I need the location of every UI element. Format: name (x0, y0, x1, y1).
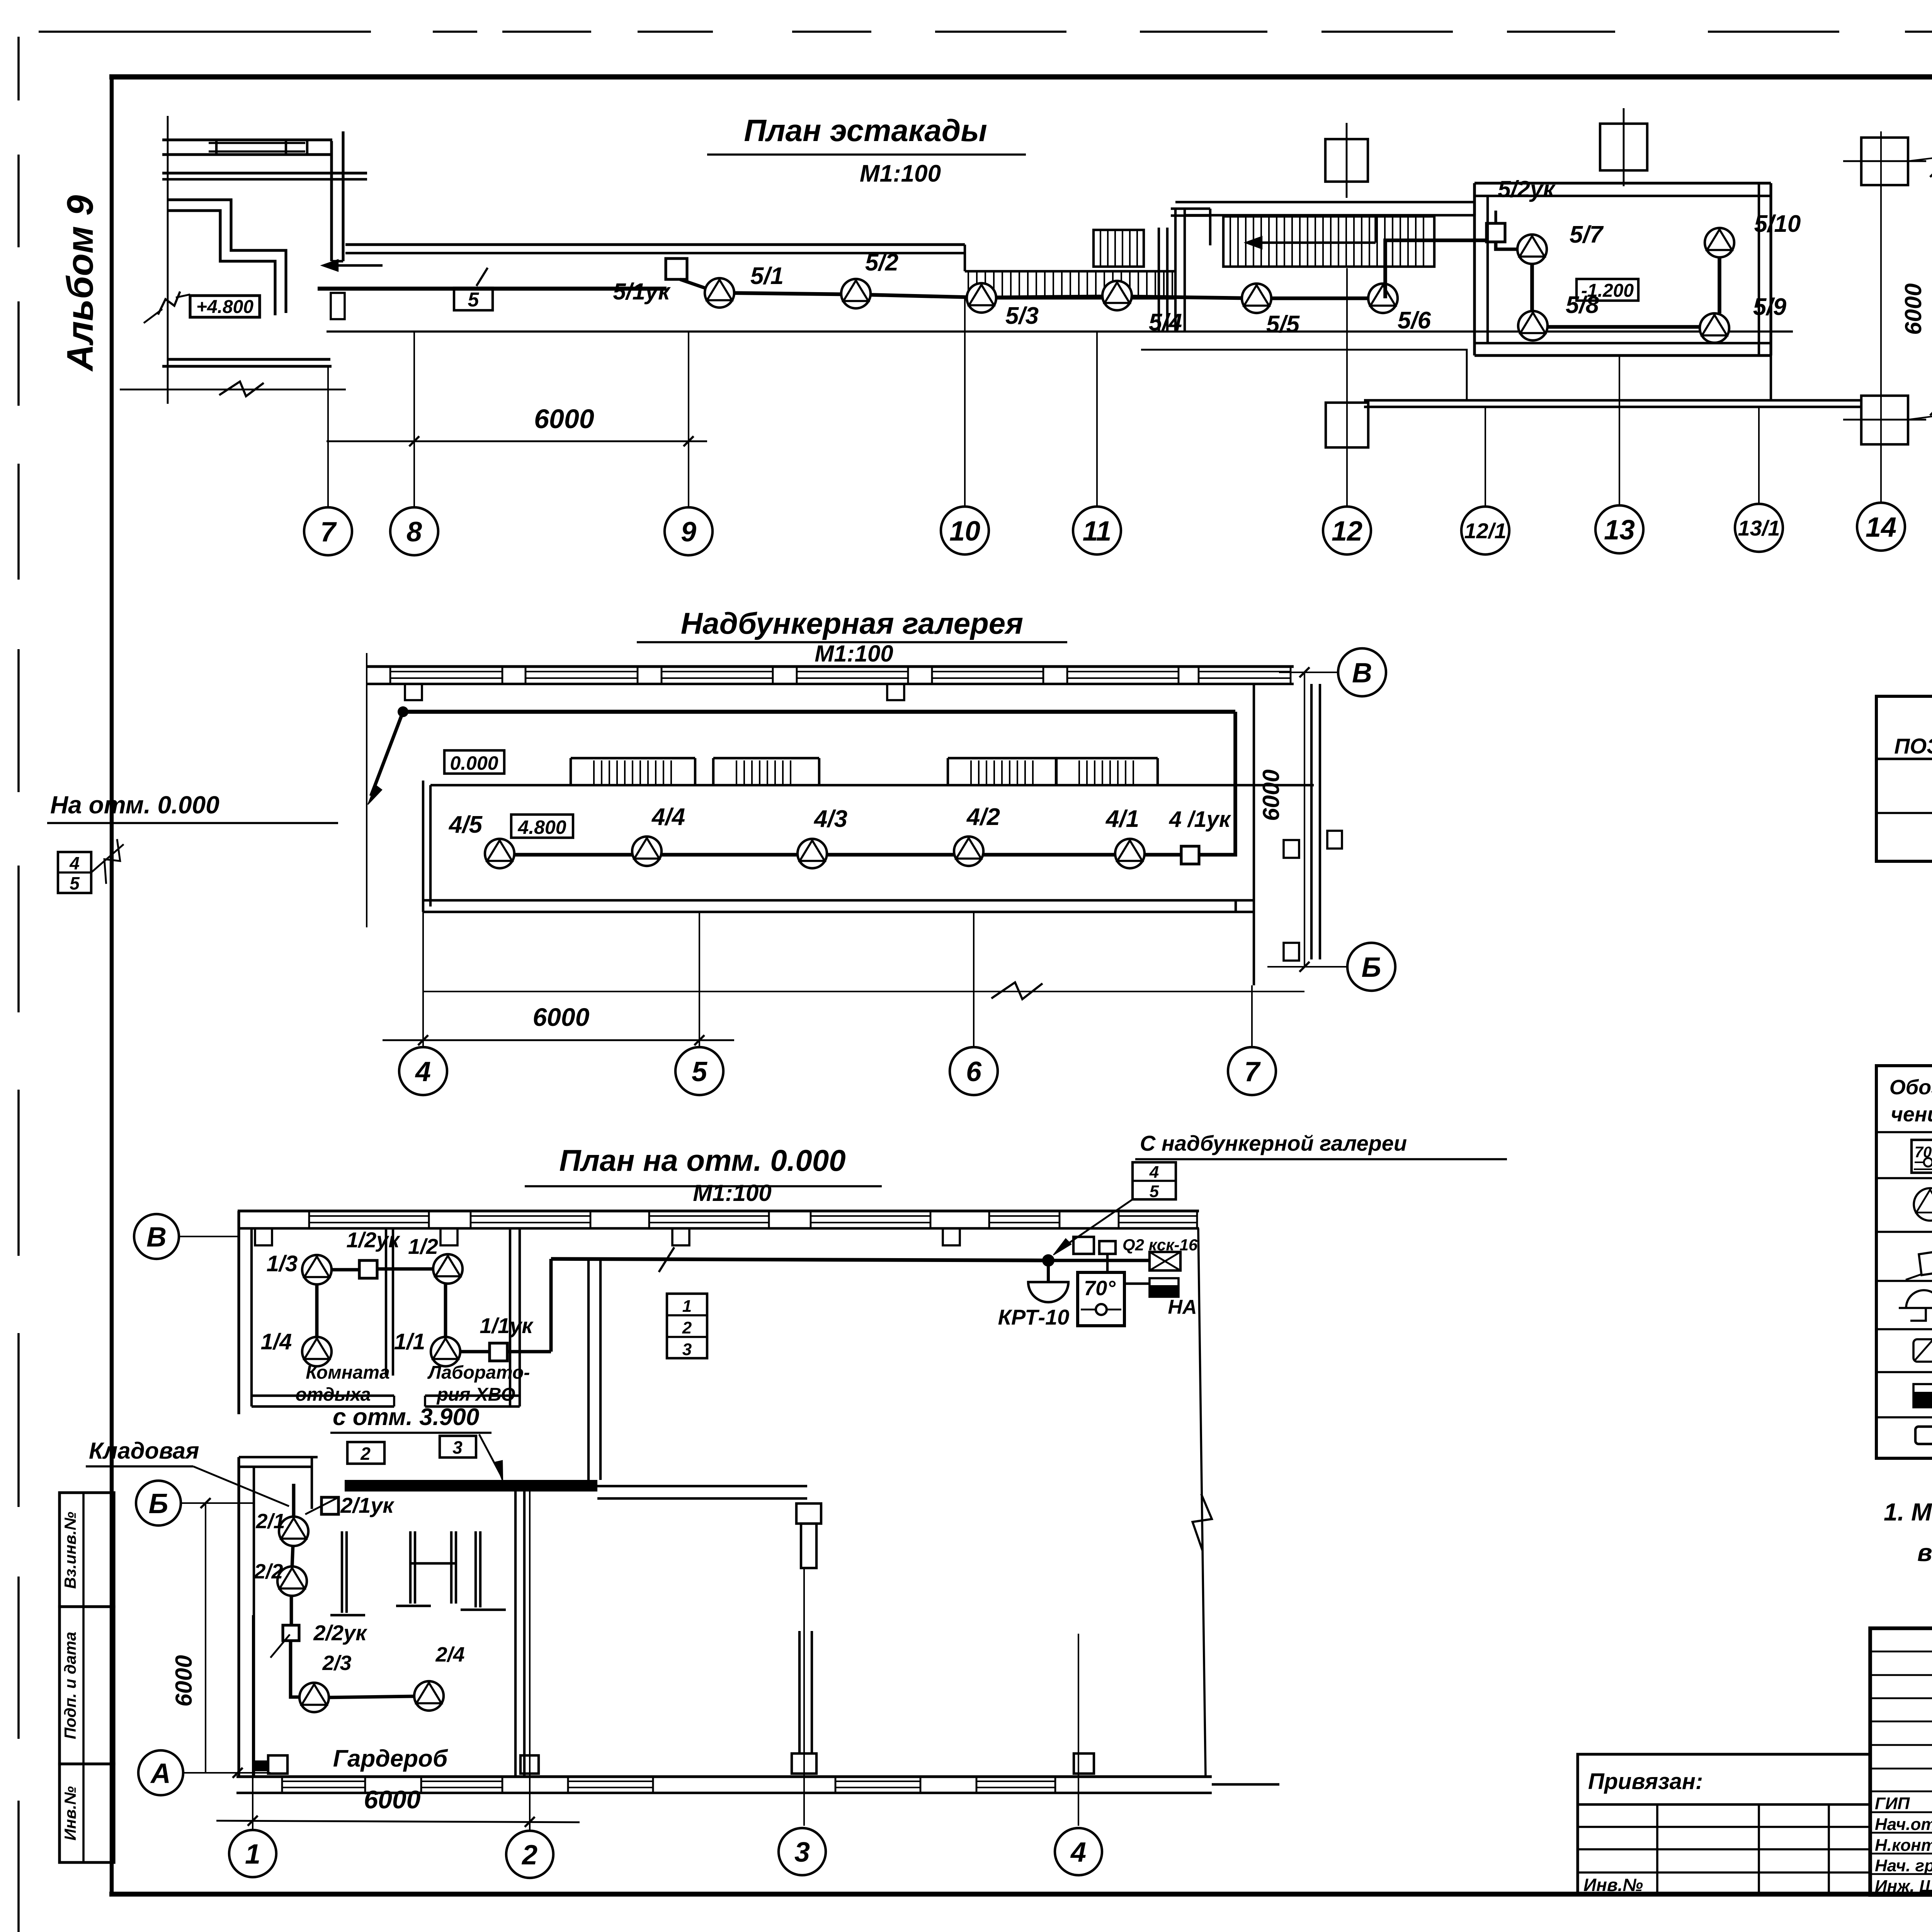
svg-text:ПОЗ.: ПОЗ. (1894, 734, 1932, 758)
svg-text:2/4: 2/4 (435, 1643, 464, 1666)
wire line left segment (318, 287, 667, 291)
axis circle 13 (1595, 505, 1643, 553)
svg-text:2: 2 (360, 1444, 371, 1464)
svg-text:Нач. гр.: Нач. гр. (1875, 1856, 1932, 1875)
svg-text:выполнить согласно ВСН25-09,: выполнить согласно ВСН25-09,68-85. (1917, 1539, 1932, 1566)
svg-text:2/3: 2/3 (322, 1651, 351, 1675)
svg-text:3: 3 (452, 1437, 463, 1458)
detector 4/4 (632, 837, 662, 866)
detector 2/2 (277, 1566, 307, 1596)
wire riser from 5/6 up to 5/2uk (1385, 240, 1488, 298)
leader from flag to node (1059, 1199, 1133, 1250)
break mark on building left edge (144, 309, 162, 323)
junction box 1/2uk (359, 1260, 377, 1278)
dimension line 6000 between axes 8-9 (327, 440, 707, 442)
axis circle 14 (1857, 503, 1905, 551)
garderob right wall (514, 1492, 517, 1777)
junction box 4/1uk (1181, 846, 1199, 864)
axis circle 6 (950, 1047, 998, 1095)
svg-text:4: 4 (69, 853, 80, 873)
svg-text:3: 3 (794, 1837, 810, 1868)
svg-text:4: 4 (1149, 1163, 1159, 1182)
gallery far right wall (1310, 684, 1313, 959)
sheet left edge artifact dashed line (17, 37, 20, 1932)
svg-text:14: 14 (1866, 512, 1896, 543)
svg-text:5/2: 5/2 (865, 249, 898, 276)
svg-text:Копир:: Копир: (1886, 1928, 1932, 1932)
legend row 1 concentrator symbol (1912, 1140, 1932, 1173)
svg-text:6000: 6000 (534, 404, 594, 434)
svg-text:4/3: 4/3 (813, 806, 847, 832)
arrow from 3.900 label to wall (479, 1434, 502, 1478)
svg-text:4: 4 (415, 1056, 431, 1087)
gallery wire top run (398, 706, 408, 717)
svg-text:10: 10 (949, 516, 980, 547)
svg-text:4/4: 4/4 (651, 804, 685, 830)
wire kladovaya (292, 1484, 296, 1517)
detector 4/3 (798, 839, 827, 868)
legend row 6 bell symbol (1913, 1384, 1932, 1407)
svg-text:2/1ук: 2/1ук (340, 1493, 395, 1517)
svg-text:Привязан:: Привязан: (1588, 1769, 1703, 1794)
left margin stamp boxes (60, 1493, 114, 1607)
gallery dim 6000 axes 4-5 (383, 1039, 734, 1041)
gallery pilasters under band (405, 684, 422, 700)
svg-text:В: В (146, 1222, 167, 1253)
column square axis 14 upper (1861, 138, 1908, 185)
room block bottom wall (252, 1395, 394, 1397)
gallery wire mid run (500, 853, 1181, 857)
right wall of left building (330, 141, 333, 261)
flag box 3 (440, 1436, 476, 1458)
svg-text:7: 7 (320, 517, 337, 548)
svg-text:12: 12 (1332, 516, 1362, 547)
svg-text:8: 8 (406, 517, 422, 548)
svg-text:2: 2 (682, 1318, 692, 1337)
detector 1/2 (433, 1254, 463, 1284)
svg-text:1/1ук: 1/1ук (480, 1313, 534, 1338)
flag box 5 on wire (476, 268, 488, 286)
legend row 7 power block symbol (1915, 1427, 1932, 1444)
axis base line below building (120, 389, 346, 391)
svg-text:2/1: 2/1 (255, 1510, 285, 1533)
column square axis 12 lower (1326, 403, 1368, 447)
svg-text:На отм. 0.000: На отм. 0.000 (50, 791, 219, 819)
svg-text:1/2: 1/2 (408, 1234, 438, 1259)
axis circle 9 (665, 507, 713, 555)
axis circle 2 bottom (506, 1831, 553, 1878)
detector 4/1 (1115, 839, 1145, 868)
detector 5/3 (967, 283, 996, 313)
gallery axis verticals (422, 912, 424, 1047)
left building walls (167, 116, 169, 404)
vertical dim 6000 left (205, 1503, 206, 1773)
axis circle A bottom plan (182, 1772, 270, 1774)
pilasters under top band (255, 1228, 272, 1245)
axis verticals bottom plan (252, 1615, 253, 1830)
svg-text:6000: 6000 (1900, 283, 1926, 335)
hall left wall (587, 1259, 590, 1480)
svg-text:1. Монтаж установки пожарно: 1. Монтаж установки пожарной сигнализаци… (1884, 1498, 1932, 1526)
svg-text:В: В (1352, 658, 1372, 689)
detector 2/3 (299, 1683, 329, 1712)
stair strip walls upper plan (965, 270, 1175, 272)
gallery right end walls (1253, 684, 1255, 985)
flag box 2 (347, 1442, 384, 1464)
column square on axis 12 top (1325, 139, 1368, 182)
thick wall under rooms (345, 1480, 597, 1492)
legend row 5 KSK-16 symbol (1913, 1339, 1932, 1362)
svg-text:0.000: 0.000 (450, 752, 498, 774)
lower outer wall to axis 14 (1364, 399, 1860, 401)
junction box 5/2uk (1486, 223, 1505, 242)
svg-text:Кладовая: Кладовая (89, 1438, 199, 1464)
wire in right room (1496, 242, 1519, 249)
elevation mark -1.200 (1577, 279, 1638, 301)
axis circle 12 (1323, 507, 1371, 554)
svg-text:6000: 6000 (364, 1785, 421, 1814)
stamp person rows (1870, 1811, 1932, 1813)
gallery top wall band with windows (367, 665, 1294, 668)
axis circle 12/1 (1461, 507, 1509, 554)
svg-text:6000: 6000 (1258, 769, 1284, 821)
legend row 2 detector symbol (1914, 1188, 1932, 1221)
svg-text:11: 11 (1083, 516, 1112, 547)
svg-text:4/1: 4/1 (1105, 806, 1139, 832)
wall above big stair (1175, 201, 1475, 203)
elevation box 0.000 (444, 750, 504, 774)
detector 4/2 (954, 837, 983, 866)
svg-text:А: А (150, 1758, 171, 1789)
gallery long datum line with break (423, 991, 1304, 992)
svg-text:5/9: 5/9 (1753, 294, 1787, 320)
bottom wall band with windows (236, 1775, 1212, 1778)
svg-text:5/7: 5/7 (1570, 221, 1604, 248)
legend row 4 KRT-10 symbol (1906, 1290, 1932, 1308)
svg-text:3: 3 (682, 1340, 692, 1359)
garderob partitions (341, 1531, 343, 1613)
riser flag boxes 1 2 3 (667, 1294, 707, 1358)
stepped wall of left building (168, 200, 286, 313)
svg-text:13: 13 (1604, 515, 1635, 546)
svg-text:5/5: 5/5 (1266, 311, 1300, 338)
detector 2/4 (414, 1681, 444, 1711)
svg-text:+4.800: +4.800 (196, 297, 253, 317)
svg-text:КРТ-10: КРТ-10 (998, 1305, 1070, 1329)
svg-text:4 /1ук: 4 /1ук (1169, 807, 1231, 832)
svg-text:70°: 70° (1084, 1277, 1116, 1300)
svg-text:5/1ук: 5/1ук (613, 279, 671, 304)
axis circle 7 (304, 507, 352, 555)
axis extension lines down to circles (327, 366, 329, 507)
detector 1/1 (431, 1337, 460, 1366)
svg-text:5/1: 5/1 (750, 263, 784, 289)
axis circle B/3 (1908, 153, 1932, 161)
flag box 4/5 gallery (58, 852, 91, 893)
detector 5/7 (1517, 235, 1547, 264)
wire from box to detector 5/1 (680, 279, 710, 290)
column square axis 14 lower (1861, 396, 1908, 444)
dim 6000 axes 1-2 (216, 1821, 580, 1822)
corridor wall step down at stair (964, 245, 966, 271)
long corridor wire (551, 1259, 1048, 1260)
svg-text:4.800: 4.800 (517, 816, 566, 838)
room block right wall (509, 1228, 511, 1406)
svg-text:4/2: 4/2 (966, 804, 1000, 830)
svg-text:1: 1 (682, 1297, 692, 1316)
svg-text:13/1: 13/1 (1738, 516, 1780, 540)
svg-text:5: 5 (468, 289, 480, 311)
svg-text:1/1: 1/1 (394, 1329, 425, 1354)
main wire through detectors 5/1..5/6 (726, 293, 1376, 298)
corridor top wall double line (345, 243, 965, 246)
mid stair tower ladder hatch (1094, 230, 1144, 267)
T column at end (796, 1503, 821, 1524)
KSK-16 symbol (1150, 1252, 1180, 1270)
partition between rooms (385, 1228, 387, 1376)
axis circle 5 (675, 1047, 723, 1095)
node junction dot (1042, 1254, 1054, 1267)
elevation mark +4.800 (190, 296, 260, 317)
svg-text:1/2ук: 1/2ук (346, 1228, 400, 1252)
svg-text:5/2ук: 5/2ук (1498, 176, 1556, 202)
svg-text:с отм. 3.900: с отм. 3.900 (333, 1404, 479, 1430)
detector 5/10 (1705, 228, 1734, 257)
small box near axis A (268, 1755, 287, 1774)
main stamp outline (1870, 1628, 1932, 1895)
svg-text:С надбункерной галереи: С надбункерной галереи (1140, 1131, 1407, 1155)
svg-text:-1.200: -1.200 (1581, 281, 1634, 301)
axis circle 13/1 (1735, 504, 1783, 552)
junction box 1/1uk (490, 1343, 507, 1361)
concentrator 70deg box (1078, 1272, 1124, 1326)
svg-text:1: 1 (245, 1839, 260, 1870)
bottom plan top wall band with windows (238, 1209, 1199, 1212)
KRT-10 dome symbol (1047, 1260, 1050, 1282)
detector 5/8 (1518, 311, 1548, 340)
wire node to KSK (1048, 1259, 1150, 1262)
svg-text:ГИП: ГИП (1875, 1794, 1910, 1813)
detector 5/2 (841, 279, 871, 308)
svg-text:Инв.№: Инв.№ (1583, 1875, 1643, 1895)
mid pilaster (798, 1631, 801, 1753)
svg-text:12/1: 12/1 (1464, 519, 1507, 543)
svg-text:6: 6 (966, 1056, 982, 1087)
corridor long bottom line (327, 330, 1793, 333)
svg-text:2/2: 2/2 (253, 1560, 283, 1583)
detector 5/5 (1242, 284, 1271, 313)
detector 2/1 (279, 1517, 308, 1546)
svg-text:Q2 кск-16: Q2 кск-16 (1122, 1236, 1198, 1254)
axis circle 10 (941, 507, 989, 554)
junction box 2/2uk (283, 1625, 299, 1641)
axis circle 8 (390, 507, 438, 555)
svg-text:Вз.инв.№: Вз.инв.№ (61, 1512, 79, 1589)
svg-text:отдыха: отдыха (296, 1384, 371, 1405)
svg-text:М1:100: М1:100 (860, 160, 941, 187)
svg-text:5/4: 5/4 (1149, 309, 1182, 336)
svg-text:Надбункерная галерея: Надбункерная галерея (681, 606, 1023, 640)
gallery room outline (422, 781, 424, 912)
svg-text:2: 2 (521, 1840, 537, 1871)
gallery room top stepped wall with stairs (430, 784, 1314, 786)
privyazan table (1578, 1754, 1870, 1895)
detector 4/5 (485, 839, 514, 868)
detector 5/1 (705, 278, 734, 308)
detector 1/3 (302, 1255, 332, 1284)
column boxes bottom (520, 1755, 539, 1774)
svg-text:5: 5 (70, 873, 80, 893)
axis circle 11 (1073, 507, 1121, 554)
svg-text:Инж. Шк: Инж. Шк (1875, 1877, 1932, 1896)
svg-text:5/6: 5/6 (1398, 307, 1431, 334)
column square mid top (1600, 124, 1647, 170)
axis circle 3 bottom (779, 1828, 826, 1875)
right room of trestle plan walls (1475, 182, 1771, 184)
flag box 4/5 bottom plan (1133, 1162, 1176, 1199)
svg-text:4: 4 (1070, 1837, 1086, 1868)
svg-text:М1:100: М1:100 (693, 1180, 771, 1206)
svg-text:М1:100: М1:100 (815, 641, 893, 667)
svg-text:2/2ук: 2/2ук (313, 1621, 367, 1645)
bell NA symbol (1150, 1278, 1179, 1297)
junction box 2/1uk (321, 1497, 338, 1514)
svg-text:Н.контр.: Н.контр. (1875, 1836, 1932, 1855)
wires to riser (460, 1350, 490, 1354)
axis circle 4 (399, 1047, 447, 1095)
door rect in left building (331, 293, 345, 319)
svg-text:4/5: 4/5 (448, 811, 483, 838)
axis circle A/1 (1908, 410, 1932, 420)
axis circle 4 bottom (1055, 1828, 1102, 1875)
svg-text:Альбом 9: Альбом 9 (60, 195, 101, 372)
stamp left blank rows (1870, 1651, 1932, 1653)
svg-text:6000: 6000 (533, 1003, 590, 1031)
svg-text:9: 9 (681, 517, 696, 548)
svg-text:Б: Б (149, 1488, 168, 1519)
small boxes on wall (1073, 1237, 1094, 1254)
wire drop diagonal to 0.000 label (371, 712, 403, 796)
svg-text:НА: НА (1168, 1296, 1197, 1318)
kladovaya room walls (239, 1456, 318, 1458)
svg-text:5: 5 (692, 1056, 707, 1087)
svg-text:Обозна-: Обозна- (1889, 1076, 1932, 1099)
stem to concentrator (1106, 1254, 1109, 1272)
left rooms block outer walls (237, 1211, 240, 1414)
axis circle 7 gallery (1228, 1047, 1276, 1095)
wire to bell (1124, 1282, 1150, 1285)
svg-text:Б: Б (1362, 952, 1381, 983)
svg-text:6000: 6000 (171, 1655, 197, 1706)
corridor lower floor line (1141, 350, 1467, 400)
sheet top edge artifact dashed line (39, 31, 1932, 33)
detector 5/9 (1700, 313, 1729, 343)
axis circle B gallery (1267, 966, 1347, 968)
wire right riser gallery (1198, 712, 1235, 855)
svg-text:План эстакады: План эстакады (744, 113, 987, 148)
svg-text:Нач.отд.: Нач.отд. (1875, 1815, 1932, 1834)
small port rect right (1327, 831, 1342, 849)
bottom walls of left building (168, 358, 330, 361)
detector 1/4 (302, 1337, 332, 1366)
svg-text:Инв.№: Инв.№ (61, 1786, 79, 1841)
svg-text:рия ХВО: рия ХВО (436, 1384, 515, 1405)
axis circle V gallery (1279, 672, 1338, 673)
svg-text:5/10: 5/10 (1754, 211, 1801, 237)
svg-text:Гардероб: Гардероб (333, 1745, 448, 1772)
junction box 5/1uk (666, 259, 687, 279)
svg-text:5/3: 5/3 (1005, 303, 1039, 329)
svg-text:Подп. и дата: Подп. и дата (61, 1632, 79, 1739)
wire to 2/3 2/4 (291, 1641, 300, 1697)
svg-text:5: 5 (1150, 1182, 1159, 1201)
thin wall continuation right (597, 1485, 807, 1487)
drawing frame (109, 74, 1932, 80)
axis circle V bottom plan (178, 1236, 239, 1237)
svg-text:1/4: 1/4 (261, 1329, 292, 1354)
svg-text:чение: чение (1891, 1103, 1932, 1126)
detector 5/6 (1368, 284, 1398, 313)
big stair block top-center (1223, 216, 1434, 267)
svg-text:7: 7 (1244, 1056, 1261, 1087)
door arrow into corridor (325, 264, 383, 267)
legend row 3 UK-P symbol (1919, 1250, 1932, 1275)
vertical dim 6000 gallery (1304, 672, 1305, 967)
svg-text:Лаборато-: Лаборато- (427, 1362, 530, 1383)
svg-text:План на отм. 0.000: План на отм. 0.000 (559, 1143, 845, 1177)
detector 5/4 (1102, 281, 1132, 310)
right wall of building (1198, 1228, 1206, 1776)
gallery bottom wall (423, 899, 1254, 901)
left axis line gallery (366, 653, 367, 927)
wires room 1 (332, 1268, 359, 1272)
svg-text:Комната: Комната (306, 1362, 390, 1383)
mid tower walls (1158, 228, 1160, 331)
svg-text:1/3: 1/3 (267, 1251, 298, 1276)
axis circle B bottom plan (180, 1502, 255, 1504)
elevation box 4.800 (511, 815, 573, 838)
stair direction arrow (1248, 241, 1376, 244)
axis circle 1 bottom (229, 1830, 276, 1877)
